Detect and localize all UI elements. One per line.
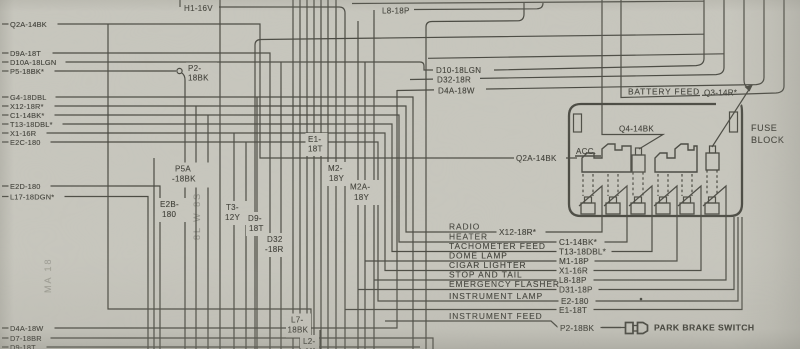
label X12-18R* left bbox=[9, 101, 55, 111]
label E2D-180 left bbox=[9, 181, 51, 191]
label M1-18P row bbox=[557, 256, 595, 267]
bundle vertical 9 bbox=[292, 0, 294, 349]
label E2-180 row bbox=[559, 296, 596, 307]
ghost bleed-through marks bbox=[192, 192, 202, 240]
wire hook from top line down to corner x426 bbox=[426, 3, 524, 349]
label FUSE BLOCK bbox=[654, 123, 785, 333]
label D4A-18W left bbox=[9, 323, 55, 333]
park brake switch connector icon bbox=[602, 327, 625, 329]
wire P5-18BK* to connector P2 bbox=[2, 70, 176, 72]
label D31-18P row bbox=[557, 284, 599, 295]
fuse 1 lower cap bbox=[581, 203, 595, 214]
label P5A-18BK bbox=[170, 163, 213, 188]
label T13-18DBL* row bbox=[557, 246, 612, 257]
fuse block left mounting notch bbox=[574, 114, 582, 132]
arrowhead Q3-14R* bbox=[745, 85, 754, 92]
fuse 5 dashed body bbox=[682, 174, 692, 196]
wire D31-18P vertical to EMERGENCY FLASHER row bbox=[358, 21, 734, 349]
wire top drop x744 to Q3-14R* arrow bbox=[744, 0, 748, 88]
wire L8-18P line rising into top line bbox=[414, 3, 543, 10]
label C1-14BK* left bbox=[9, 110, 55, 120]
bundle vertical 4 bbox=[219, 0, 221, 349]
wire H1-16V with top bracket bbox=[180, 0, 345, 349]
bundle vertical 7 bbox=[256, 97, 258, 349]
ACC terminal underline bbox=[575, 155, 601, 157]
fuse 5 lower cap bbox=[680, 203, 694, 214]
bundle vertical 3 bbox=[207, 115, 209, 349]
wire D9-18T bottom bbox=[2, 346, 420, 348]
label D10-18LGN mid bbox=[433, 65, 494, 76]
fuse 3 lower cap bbox=[631, 203, 645, 214]
label P2-18BK row bbox=[558, 322, 601, 333]
junction dot on E2 row bbox=[640, 298, 643, 301]
terminal fuse 3 bbox=[632, 155, 645, 172]
fuse 6 dashed body bbox=[707, 170, 717, 196]
battery feed bracket wire bbox=[621, 0, 700, 98]
wire from connector P2 down bundle bbox=[182, 73, 186, 349]
wire top drop x764 to D4A-18W bbox=[397, 0, 764, 91]
edge shading bbox=[0, 255, 800, 349]
label X1-16R left bbox=[9, 128, 47, 138]
fuse block right mounting notch bbox=[730, 112, 738, 132]
terminal fuse 3 tab bbox=[636, 148, 642, 155]
label L2- bottom cut bbox=[300, 335, 319, 348]
bundle vertical 2 bbox=[195, 106, 197, 349]
label P2-18BK connector bbox=[186, 63, 217, 86]
wire X12-18R* left to RADIO row and fuse 1 bbox=[2, 106, 602, 232]
fuse 4 lower cap bbox=[656, 203, 670, 214]
wire long y37 line from x255 bbox=[255, 34, 704, 349]
wire M1-18P vertical to DOME LAMP row and fuse 4 bbox=[365, 62, 677, 349]
fuse 6 lower cap bbox=[705, 203, 719, 214]
connector circle P2 bbox=[177, 68, 182, 73]
label Q2A-14BK at ACC bbox=[514, 153, 566, 164]
wire D9A-18T bbox=[2, 53, 270, 349]
terminal fuse 6 tab bbox=[710, 146, 716, 153]
wire G4-18DBL bbox=[2, 97, 413, 349]
wire Q3-14R* diagonal into fuse 6 terminal bbox=[712, 88, 750, 147]
label T13-18DBL* left bbox=[9, 119, 63, 129]
wire D7-18BR bbox=[2, 338, 433, 349]
bundle vertical 13 bbox=[320, 0, 322, 349]
bundle vertical 5 bbox=[233, 133, 235, 349]
wire X1-16R left to CIGAR LIGHTER row and fuse 5 bbox=[2, 133, 701, 271]
bundle vertical 6 bbox=[245, 142, 247, 349]
label E2B-180 bbox=[157, 198, 186, 222]
wire T13-18DBL* left to TACHOMETER row and fuse 3 bbox=[2, 124, 652, 252]
label L17-18DGN* left bbox=[9, 192, 65, 202]
label P5-18BK* left bbox=[9, 66, 55, 76]
wire top drop x784 to BATTERY FEED bbox=[702, 0, 784, 95]
bundle vertical 8 bbox=[280, 62, 282, 349]
label L8-18P row bbox=[557, 275, 594, 286]
fuse block outline bbox=[569, 104, 742, 216]
wire L8-18P top label down to STOP AND TAIL row and fuse 6 bbox=[374, 10, 726, 349]
wire E1-18T vertical to row bbox=[345, 217, 742, 310]
label D9-18T left bottom cut bbox=[9, 343, 47, 349]
wire top line y2.5 bbox=[352, 1, 704, 3]
fuse 4 dashed body bbox=[658, 174, 668, 196]
wire Q4-14BK from top vertical bbox=[602, 0, 663, 149]
wire D10A-18LGN to mid label D10-18LGN bbox=[2, 62, 496, 70]
fuse 3 dashed body bbox=[633, 172, 643, 196]
label X1-16R row bbox=[557, 265, 594, 276]
wire y57 line bbox=[428, 54, 724, 59]
label D10A-18LGN left bbox=[9, 57, 66, 67]
fuse 2 lower cap bbox=[606, 203, 620, 214]
bundle vertical 10 bbox=[299, 0, 301, 349]
label D32-18R mid bbox=[264, 233, 291, 257]
bus bar ACC (fuses 1-2) bbox=[582, 144, 631, 172]
wire D4A-18W bottom label up to mid label bbox=[2, 90, 397, 328]
fuse 1 dashed body bbox=[583, 174, 593, 196]
terminal fuse 6 bbox=[706, 153, 719, 170]
wire Q2A-14BK from left label to ACC terminal bbox=[2, 24, 577, 158]
label M2-18Y bbox=[325, 162, 352, 186]
label Q2A-14BK left bbox=[9, 19, 58, 29]
bundle vertical 1 bbox=[153, 158, 155, 349]
wire E2C-18O left to INSTRUMENT LAMP row bbox=[2, 142, 738, 301]
bundle vertical 14 bbox=[327, 0, 329, 349]
label C1-14BK* row bbox=[557, 237, 605, 248]
wire INSTRUMENT FEED to P2-18BK park brake bbox=[336, 0, 621, 349]
wire L2 stub bbox=[319, 330, 321, 349]
wire lower-left L7 feeder bbox=[108, 24, 311, 349]
label D7-18BR left bbox=[9, 333, 51, 343]
label M2A-18Y bbox=[347, 180, 382, 205]
wire top drop x704 to D10-18LGN bbox=[496, 0, 704, 70]
label E1-18T row bbox=[557, 305, 594, 316]
label D9A-18T left bbox=[9, 48, 53, 58]
bundle vertical 11 bbox=[306, 0, 308, 349]
label T3-12Y bbox=[223, 201, 247, 225]
wire top drop x724 to D32-18R bbox=[410, 0, 724, 80]
label L7-18BK bbox=[286, 314, 311, 338]
wire C1-14BK* left to HEATER row and fuse 2 bbox=[2, 115, 627, 242]
label E1-18T mid bbox=[306, 133, 328, 156]
label D32-18R mid right bbox=[433, 74, 480, 85]
fuse 2 dashed body bbox=[608, 174, 618, 196]
label X12-18R* row bbox=[497, 227, 546, 238]
bus bar battery (fuses 4-5) bbox=[655, 144, 697, 172]
label E2C-180 left bbox=[9, 137, 51, 147]
label G4-18DBL left bbox=[9, 92, 56, 102]
wire L17-18DGN* bbox=[2, 197, 148, 349]
wire E2D-18O bbox=[2, 186, 160, 349]
label D9-18T mid bbox=[246, 212, 268, 236]
label D4A-18W mid right bbox=[434, 85, 486, 95]
bundle vertical 12 bbox=[313, 0, 315, 349]
